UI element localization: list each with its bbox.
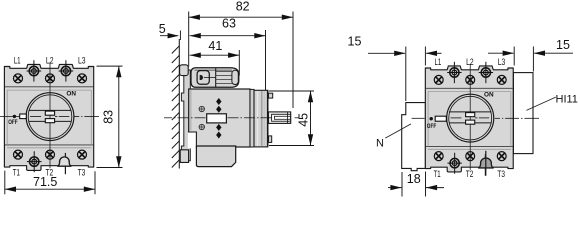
terminal block divider: [215, 68, 217, 87]
top tab on face: [269, 93, 273, 98]
bracket bottom foot: [180, 150, 188, 163]
dimension 82: [189, 12, 293, 109]
svg-text:HI11: HI11: [556, 93, 578, 105]
label plate: [207, 114, 227, 123]
dimension 15 left: [368, 47, 442, 102]
drum shade lines: [257, 91, 259, 146]
front view left: [4, 56, 93, 178]
OFF dot right view: [430, 117, 433, 120]
wall hatching: [172, 46, 179, 168]
svg-text:5: 5: [159, 22, 166, 36]
leader N: [385, 124, 411, 138]
terminal clamp: [197, 71, 209, 85]
terminal block side: [191, 68, 239, 88]
clamp mid line: [204, 77, 216, 79]
dimension 41: [190, 50, 240, 76]
arch pin right view: [485, 151, 487, 176]
body screw lower: [199, 124, 204, 129]
main body side: [189, 89, 250, 147]
bottom tab on face: [269, 136, 272, 143]
svg-text:63: 63: [222, 17, 236, 31]
mounting bracket plate: [181, 70, 190, 161]
terminal block end cap: [232, 70, 238, 84]
notch edges: [188, 132, 196, 148]
svg-text:83: 83: [102, 110, 116, 124]
HI11 pod: [513, 73, 533, 154]
svg-text:OFF: OFF: [427, 123, 436, 130]
svg-text:ON: ON: [66, 91, 76, 98]
svg-text:18: 18: [407, 172, 421, 186]
leader HI11: [526, 97, 555, 110]
centerline right view: [412, 117, 539, 119]
dimension 5: [160, 31, 180, 41]
N pod: [402, 103, 426, 171]
arch bump bottom left view: [57, 157, 71, 166]
OFF dot left view: [13, 115, 16, 118]
drum: [254, 90, 268, 147]
dimension 63: [190, 30, 266, 90]
mounting wall line: [178, 39, 180, 169]
dimension 83: [97, 66, 123, 167]
front view right: [425, 57, 513, 179]
svg-text:N: N: [376, 138, 384, 150]
centerline left of circle: [0, 115, 20, 117]
diamond 4: [216, 132, 221, 139]
dimension 45: [269, 91, 314, 146]
bracket top tab: [180, 65, 189, 76]
terminal block top inner line: [195, 69, 233, 71]
diamond 3: [216, 124, 221, 131]
OFF pointer rect right view: [435, 116, 446, 121]
terminal block vent lines: [216, 71, 232, 83]
OFF pointer rect left view: [20, 114, 27, 119]
svg-text:82: 82: [236, 0, 250, 13]
body foot lower-left: [196, 146, 235, 167]
body screw upper: [199, 106, 204, 111]
diamond 2: [216, 106, 221, 113]
svg-text:15: 15: [348, 34, 362, 48]
svg-text:41: 41: [208, 39, 222, 53]
shaft: [269, 112, 291, 124]
svg-text:ON: ON: [484, 91, 494, 98]
svg-text:OFF: OFF: [8, 119, 17, 126]
drum face: [267, 91, 269, 147]
body lower-left notch: [188, 132, 196, 148]
svg-text:45: 45: [297, 113, 311, 127]
shaft slot inner: [274, 116, 290, 119]
dimension 71.5: [5, 171, 95, 195]
dimension 18: [388, 172, 444, 197]
flange: [250, 89, 254, 147]
centerline middle view: [164, 117, 299, 119]
dimension 15 right: [488, 47, 573, 72]
svg-text:71.5: 71.5: [33, 175, 57, 189]
arch bump bottom right view: [478, 158, 494, 168]
shaft slot: [272, 114, 291, 121]
body inner edge line: [190, 90, 192, 131]
centerline right of circle dash-dot: [74, 115, 99, 117]
terminal screw side: [200, 75, 203, 80]
svg-text:15: 15: [556, 38, 570, 52]
diamond 1: [216, 98, 221, 105]
shaft end cap: [287, 112, 289, 123]
